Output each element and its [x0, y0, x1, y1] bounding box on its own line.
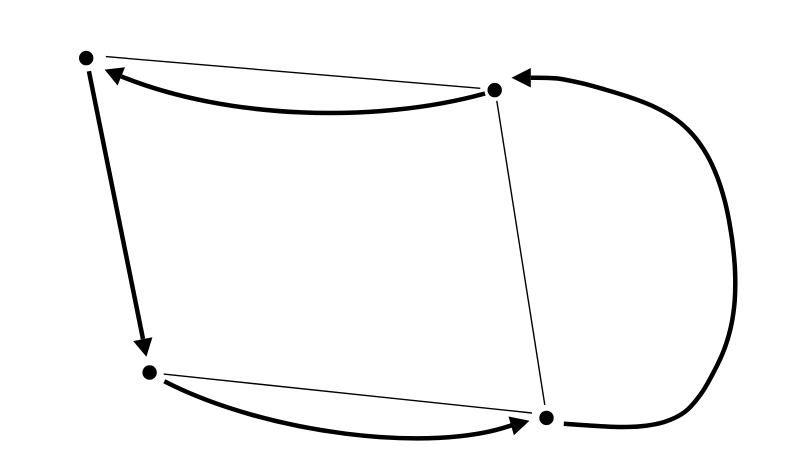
- edge C to D (thick curved arrow shaft): [164, 381, 512, 438]
- wire C-D (thin straight line): [164, 374, 532, 413]
- arrowhead at B for edge D to B: [512, 68, 531, 88]
- arrowhead at A for edge B to A: [105, 67, 125, 85]
- wire A-B (thin straight line): [106, 57, 481, 89]
- arrowhead at C for edge A to C: [133, 337, 152, 357]
- arrowhead at D for edge C to D: [509, 417, 530, 436]
- node A (top-left dot): [79, 51, 93, 65]
- edge B to A (thick curved arrow shaft): [121, 76, 485, 113]
- node B (upper-right dot): [488, 83, 502, 97]
- edge D to B (thick large right-side arc shaft): [531, 78, 735, 427]
- node D (lower-right dot): [539, 411, 553, 425]
- node C (lower-left dot): [142, 365, 156, 379]
- edge A to C (thick straight arrow shaft): [89, 71, 143, 339]
- wire B-D (thin straight line): [497, 101, 545, 405]
